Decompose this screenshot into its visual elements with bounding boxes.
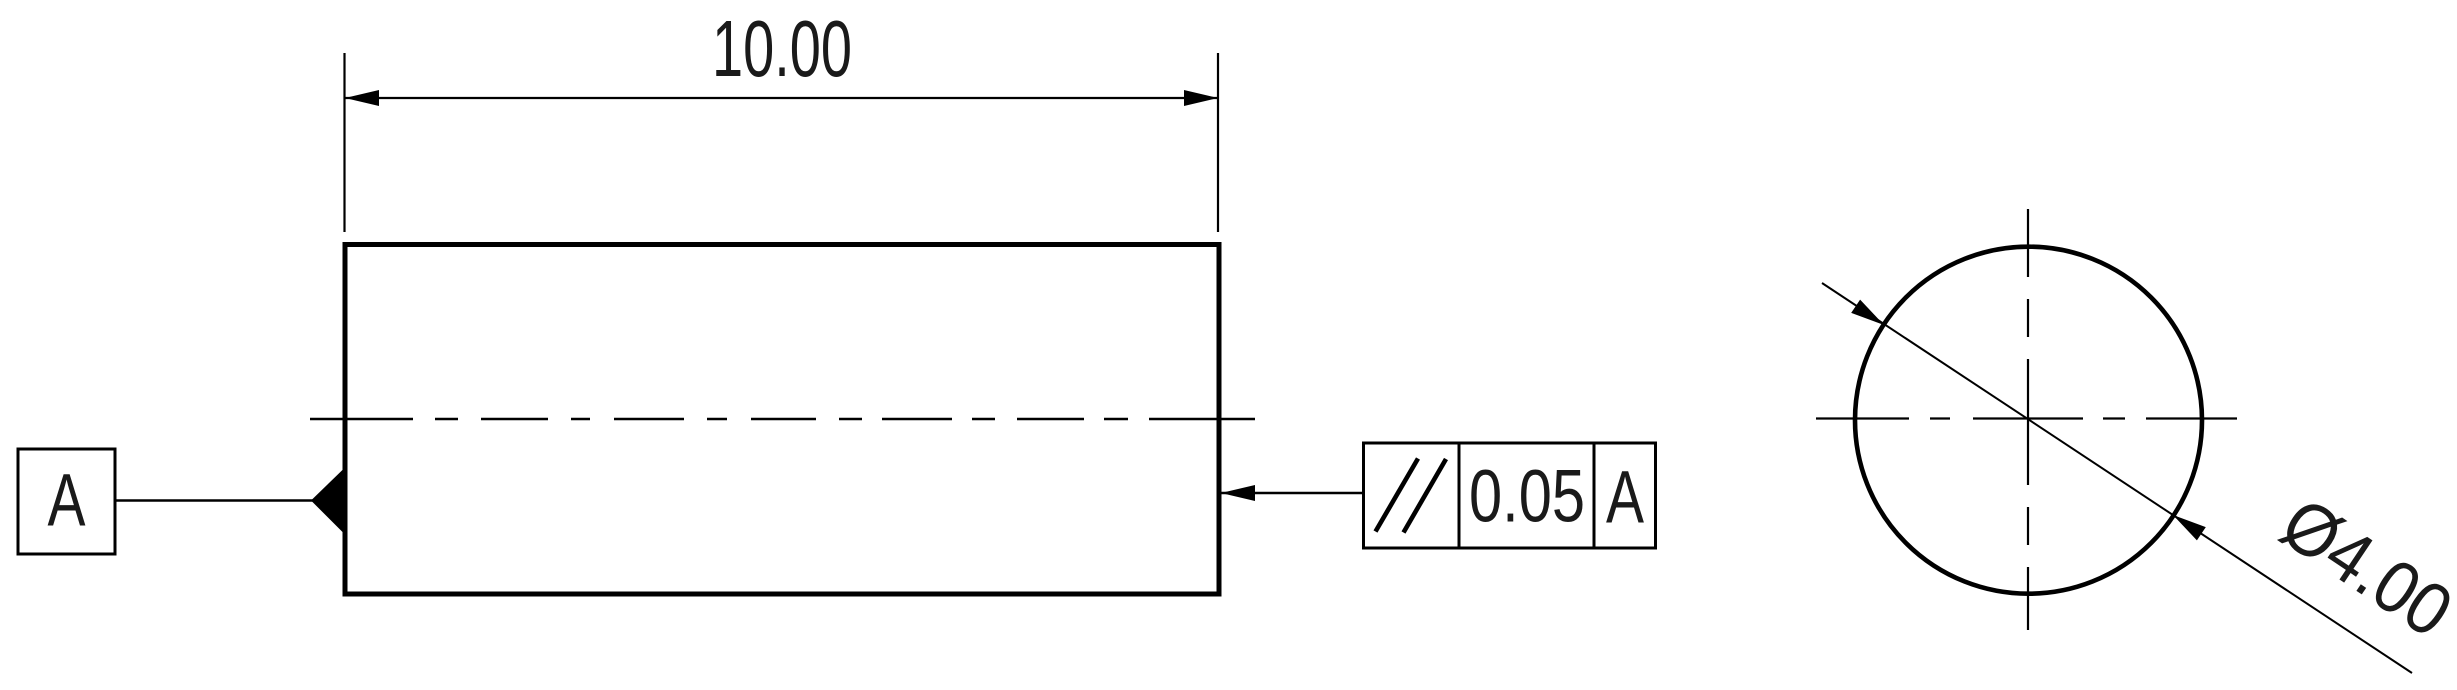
end view circle — [1855, 247, 2202, 594]
svg-text:10.00: 10.00 — [712, 4, 852, 93]
datum leader line — [115, 499, 313, 501]
feature control frame outer box — [1364, 443, 1656, 548]
extension line right (dimension 10.00) — [1217, 53, 1219, 232]
side view rectangle (cylinder profile) — [345, 245, 1219, 595]
diameter arrowhead upper-left (points to circle) — [1851, 300, 1884, 325]
svg-text:A: A — [48, 459, 86, 542]
centerline (side view axis, dash-dot) — [310, 418, 1255, 420]
feature control frame divider 2 — [1593, 443, 1596, 548]
horizontal centerline of circle — [1816, 417, 2237, 419]
feature control frame divider 1 — [1458, 443, 1461, 548]
diagonal diameter dimension line — [1822, 283, 2412, 673]
feature control frame leader arrowhead (points left at right face) — [1221, 485, 1255, 501]
arrowhead right of dimension 10.00 — [1184, 90, 1218, 106]
datum feature triangle (filled) on left face — [311, 468, 345, 535]
svg-text:0.05: 0.05 — [1469, 455, 1585, 538]
datum label box A — [18, 449, 115, 554]
parallelism symbol stroke 1 — [1376, 459, 1419, 532]
svg-text:A: A — [1606, 456, 1644, 539]
diameter arrowhead lower-right (points to circle) — [2173, 515, 2206, 540]
arrowhead left of dimension 10.00 — [345, 90, 379, 106]
extension line left (dimension 10.00) — [343, 53, 345, 232]
vertical centerline of circle — [2027, 209, 2029, 630]
dimension line 10.00 — [345, 97, 1219, 99]
parallelism symbol stroke 2 — [1404, 459, 1447, 533]
feature control frame leader line — [1221, 492, 1364, 494]
